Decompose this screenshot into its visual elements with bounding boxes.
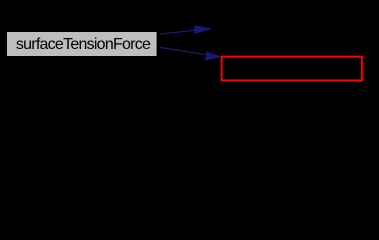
svg-text:surfaceTensionForce: surfaceTensionForce — [16, 36, 151, 53]
